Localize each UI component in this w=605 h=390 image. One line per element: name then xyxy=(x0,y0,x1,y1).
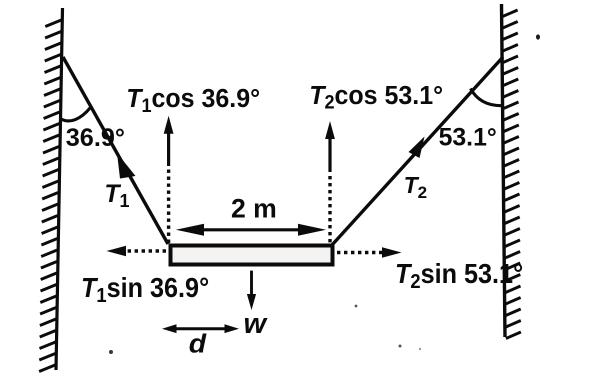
svg-text:d: d xyxy=(189,328,208,358)
svg-text:36.9°: 36.9° xyxy=(66,124,125,152)
dimension arrow d xyxy=(162,324,239,333)
arrowhead on cable T2 xyxy=(409,137,425,159)
svg-text:T2cos 53.1°: T2cos 53.1° xyxy=(309,81,443,112)
angle arc 36.9 left xyxy=(61,108,91,121)
scan speck bottom left xyxy=(109,350,113,354)
arrowhead on cable T1 xyxy=(117,153,136,179)
scan speck bottom middle faint xyxy=(419,348,421,350)
angle arc 53.1 right xyxy=(471,89,504,106)
svg-text:53.1°: 53.1° xyxy=(439,125,497,152)
vertical force arrow T1cos (up) xyxy=(164,116,174,244)
svg-text:T1cos 36.9°: T1cos 36.9° xyxy=(126,85,260,116)
left wall xyxy=(39,8,62,372)
right wall xyxy=(502,4,521,339)
svg-text:T1sin 36.9°: T1sin 36.9° xyxy=(81,272,209,307)
weight arrow w (down) xyxy=(247,271,256,310)
svg-text:w: w xyxy=(244,308,269,340)
svg-text:T2: T2 xyxy=(404,172,428,202)
scan speck bottom middle xyxy=(399,345,402,348)
scan speck mid right xyxy=(355,305,358,308)
svg-text:T1: T1 xyxy=(104,181,129,211)
cable T1 xyxy=(63,57,168,244)
beam xyxy=(171,246,333,265)
dimension arrow 2 m xyxy=(176,224,326,236)
svg-text:T2sin 53.1°: T2sin 53.1° xyxy=(395,258,523,293)
horizontal dotted arrow T2sin (right) xyxy=(337,247,402,258)
svg-text:2 m: 2 m xyxy=(231,194,277,224)
scan speck top right xyxy=(536,34,540,39)
vertical force arrow T2cos (up) xyxy=(325,121,335,244)
cable T2 xyxy=(332,57,503,245)
horizontal dotted arrow T1sin (left) xyxy=(107,246,167,257)
